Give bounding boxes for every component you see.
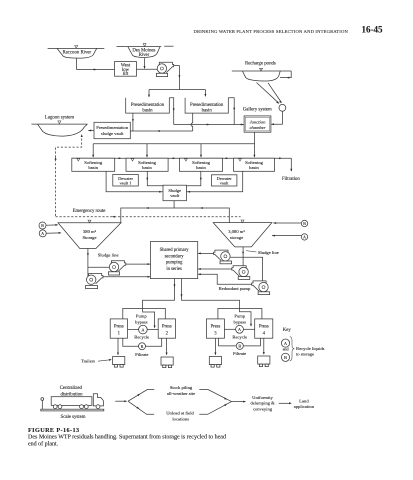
Des Moines River basin — [117, 44, 174, 58]
svg-text:Presedimentation: Presedimentation — [131, 103, 165, 108]
svg-text:Des Moines WTP residuals handl: Des Moines WTP residuals handling. Super… — [28, 434, 226, 441]
svg-text:Recycle: Recycle — [232, 335, 247, 340]
wire basin4 sludge to vault — [187, 171, 243, 191]
svg-text:secondary: secondary — [165, 254, 185, 259]
scale platform — [41, 409, 104, 411]
wire settled water line to junction chamber — [174, 124, 244, 126]
sludge pump P4 — [214, 250, 232, 264]
wire branch to field — [128, 401, 154, 414]
svg-text:Presedimentation: Presedimentation — [96, 125, 129, 130]
wire recharge return stub — [280, 71, 291, 78]
svg-text:basin: basin — [202, 109, 213, 114]
svg-text:B: B — [284, 355, 287, 360]
svg-text:Junction: Junction — [250, 119, 267, 124]
svg-text:Recycle: Recycle — [134, 335, 149, 340]
wire pump bypass right — [218, 309, 262, 319]
svg-text:lift: lift — [123, 72, 129, 77]
svg-text:Redundant pump: Redundant pump — [219, 286, 251, 291]
wire supernatant line to storage — [121, 208, 230, 223]
svg-text:Filtrate: Filtrate — [233, 351, 246, 356]
wire press4 cake — [263, 338, 265, 354]
wire sludge vault drain — [173, 201, 175, 208]
wire softening train line — [72, 158, 291, 171]
wire basin1 overflow weir — [169, 98, 173, 125]
svg-text:vault 1: vault 1 — [119, 181, 131, 186]
svg-text:chamber: chamber — [249, 125, 265, 130]
wire emergency route dashed — [56, 135, 82, 217]
wire basin2 overflow weir — [228, 98, 234, 125]
wire drain branch to pump — [88, 266, 109, 268]
svg-text:Storage: Storage — [82, 235, 96, 240]
wire press1 cake — [117, 338, 119, 354]
svg-text:basin: basin — [88, 165, 98, 170]
svg-text:bypass: bypass — [234, 319, 247, 324]
wire presed sludge line — [130, 130, 192, 132]
wire branch to stockpile — [128, 389, 154, 401]
junction chamber U1 — [244, 116, 271, 132]
wire pump bypass left — [123, 308, 166, 319]
svg-text:Presedimentation: Presedimentation — [190, 103, 224, 108]
presedimentation sludge vault — [94, 122, 130, 138]
wire node A to tank — [46, 232, 61, 234]
svg-text:Scale system: Scale system — [61, 415, 86, 420]
softening basin 1 — [72, 158, 115, 171]
svg-text:B: B — [41, 223, 44, 228]
truck wheels — [53, 405, 88, 409]
wire Raccoon drain to lift station — [77, 58, 115, 69]
node B left — [39, 222, 46, 229]
svg-text:FIGURE P-16-13: FIGURE P-16-13 — [28, 427, 80, 434]
Recharge ponds — [232, 61, 291, 81]
svg-text:delumping &: delumping & — [250, 401, 275, 406]
wire press feed left — [143, 279, 175, 328]
svg-text:Press: Press — [114, 325, 124, 330]
press 4 — [255, 319, 273, 338]
svg-text:Land: Land — [299, 399, 309, 404]
wire press feed right — [182, 279, 252, 326]
svg-text:Unload at field: Unload at field — [166, 411, 194, 416]
svg-text:Pump: Pump — [234, 313, 245, 318]
svg-text:16-45: 16-45 — [362, 24, 383, 34]
wire pump P3 discharge — [103, 276, 150, 278]
wire presed manifold — [149, 89, 205, 91]
trailer 2 — [161, 357, 173, 368]
svg-text:Stock piling: Stock piling — [170, 385, 193, 390]
wire junction chamber drain — [254, 132, 256, 144]
truck hitch — [41, 398, 44, 410]
svg-text:all-weather site: all-weather site — [167, 391, 195, 396]
node A recycle left — [139, 325, 148, 334]
wire pump P4 discharge — [198, 252, 214, 254]
svg-text:Filtration: Filtration — [282, 177, 300, 182]
node A recycle right — [236, 325, 244, 333]
sludge line label right — [246, 251, 257, 252]
sludge vault — [163, 185, 186, 201]
wire Des Moines drain — [144, 58, 146, 68]
storage tank 380 m3 — [58, 220, 121, 248]
softening basin 2 — [126, 158, 168, 171]
wire basin1 sludge drop — [132, 113, 134, 131]
press 1 — [110, 319, 127, 338]
svg-text:basin: basin — [142, 165, 152, 170]
Raccoon River basin — [48, 46, 105, 59]
wire stockpile to merge — [199, 389, 231, 401]
svg-text:to storage: to storage — [296, 351, 314, 356]
svg-text:DRINKING WATER PLANT PROCESS S: DRINKING WATER PLANT PROCESS SELECTION A… — [193, 29, 348, 34]
intake pump P1 — [156, 62, 173, 76]
node B filtrate left — [139, 343, 146, 350]
svg-text:Pump: Pump — [136, 313, 147, 318]
svg-text:and: and — [283, 346, 290, 351]
svg-text:Emergency route: Emergency route — [73, 209, 106, 214]
svg-text:in series: in series — [166, 267, 182, 272]
svg-text:A: A — [303, 235, 306, 240]
svg-text:B: B — [141, 344, 144, 349]
node B filtrate right — [236, 342, 243, 349]
redundant pump P6 — [252, 281, 270, 295]
wire gallery to junction chamber — [271, 111, 282, 124]
sludge pump P5 — [232, 266, 250, 280]
node A right — [301, 234, 307, 240]
wire softening feed manifold — [93, 143, 254, 145]
presedimentation basin 1 — [126, 98, 170, 114]
svg-text:conveying: conveying — [253, 406, 273, 411]
svg-text:vault: vault — [170, 193, 180, 198]
wire basin1 sludge to vault — [106, 171, 163, 191]
svg-text:B: B — [303, 221, 306, 226]
node B right — [301, 220, 307, 226]
truck trailer — [51, 397, 92, 406]
wire uniformity to land — [279, 402, 291, 404]
svg-text:Gallery system: Gallery system — [243, 107, 272, 112]
sludge pump P2 — [108, 261, 125, 275]
svg-text:bypass: bypass — [135, 319, 148, 324]
svg-text:Filtrate: Filtrate — [135, 352, 148, 357]
svg-text:Uniformity: Uniformity — [252, 395, 273, 400]
gallery well node — [279, 104, 286, 111]
wire basin2 sludge to vault — [147, 171, 163, 186]
wire basin2 sludge drop with hop — [191, 113, 193, 131]
node A left — [39, 230, 46, 237]
wire pump P5 discharge — [198, 268, 232, 270]
svg-text:Press: Press — [162, 325, 172, 330]
svg-text:locations: locations — [172, 417, 189, 422]
sludge pump P3 — [86, 274, 103, 289]
softening basin 3 — [179, 158, 222, 171]
wire node B right to tank — [273, 222, 301, 224]
svg-text:storage: storage — [230, 235, 243, 240]
press 3 — [206, 319, 224, 338]
wire recycle line right — [224, 328, 235, 330]
svg-text:B: B — [238, 344, 241, 349]
trailer 4 — [258, 356, 270, 367]
wire truck to branch — [115, 400, 126, 402]
wire filtrate loop right — [219, 338, 237, 346]
truck cab — [93, 394, 103, 409]
shared pumping box — [151, 242, 198, 279]
svg-text:Centralized: Centralized — [60, 386, 83, 391]
wire pump P2 discharge — [126, 263, 151, 265]
svg-text:Raccoon River: Raccoon River — [62, 50, 91, 55]
wire pump P6 discharge — [198, 274, 252, 284]
svg-text:sludge vault: sludge vault — [101, 131, 124, 136]
svg-text:Recycle liquids: Recycle liquids — [296, 346, 325, 351]
svg-text:Recharge ponds: Recharge ponds — [245, 61, 276, 66]
wire field to merge — [199, 402, 231, 415]
wire node B to tank — [46, 224, 58, 226]
key — [281, 328, 324, 362]
wire merge to uniformity — [232, 401, 246, 403]
svg-text:Lagoon system: Lagoon system — [45, 116, 74, 121]
wire press3 cake — [214, 338, 216, 354]
wire filtrate loop left — [123, 338, 139, 346]
dewater vault 2 — [211, 175, 237, 186]
svg-text:Press: Press — [259, 325, 269, 330]
svg-text:Key: Key — [283, 328, 292, 333]
wire recycle line left — [128, 329, 139, 331]
svg-text:River: River — [139, 53, 150, 58]
svg-text:Trailers: Trailers — [81, 358, 95, 363]
wire lift station to pump — [137, 68, 158, 70]
svg-text:end of plant.: end of plant. — [28, 440, 59, 447]
svg-text:application: application — [294, 404, 315, 409]
svg-text:380 m³: 380 m³ — [83, 229, 97, 234]
svg-text:Press: Press — [210, 325, 220, 330]
svg-text:Shared primary: Shared primary — [160, 248, 190, 253]
svg-text:Sludge line: Sludge line — [258, 250, 279, 255]
softening basin 4 — [234, 158, 275, 171]
wire press2 cake — [166, 338, 168, 354]
wire right tank drain — [242, 247, 244, 267]
svg-text:pumping: pumping — [166, 261, 183, 266]
wire right suction manifold — [230, 257, 263, 282]
wire vault to lagoon — [88, 130, 94, 132]
svg-text:Sludge line: Sludge line — [98, 252, 119, 257]
svg-text:basin: basin — [142, 109, 153, 114]
svg-text:vault: vault — [220, 181, 230, 186]
svg-text:basin: basin — [249, 165, 259, 170]
svg-text:A: A — [41, 231, 44, 236]
wire gallery collectors — [257, 83, 279, 104]
wire left tank drain — [87, 249, 89, 277]
wire node A right to tank — [272, 235, 301, 237]
presedimentation basin 2 — [185, 98, 228, 114]
svg-text:basin: basin — [196, 165, 206, 170]
West low lift box — [115, 62, 137, 78]
wire pump discharge to presed manifold — [174, 66, 180, 90]
dewater vault 1 — [113, 175, 139, 187]
storage tank 3080 m3 — [213, 220, 272, 247]
Lagoon system — [31, 116, 87, 137]
trailer 1 — [113, 357, 125, 368]
trailer 3 — [209, 357, 221, 368]
press 2 — [158, 319, 175, 338]
wire basin3 sludge to vault — [186, 171, 200, 186]
